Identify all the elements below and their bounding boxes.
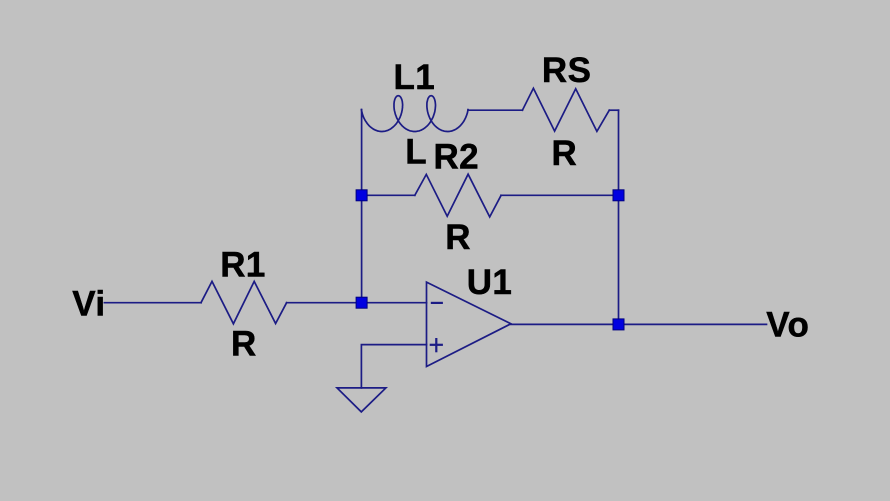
foot bar of digit 1 in L1 [418, 85, 434, 89]
wire node A to R2 [362, 194, 415, 196]
svg-text:R2: R2 [434, 137, 480, 176]
node junction right R2 [613, 190, 624, 201]
svg-text:Vi: Vi [72, 284, 105, 323]
svg-text:R: R [552, 134, 578, 173]
wire op-amp output to Vo [511, 323, 767, 325]
svg-text:RS: RS [542, 51, 591, 90]
op-amp minus sign [432, 302, 442, 304]
resistor R1 [201, 281, 287, 323]
op-amp U1 [427, 282, 511, 366]
wire Vi to R1 [104, 302, 201, 304]
wire R2 to node B [501, 194, 618, 196]
resistor R2 [415, 174, 501, 217]
svg-text:R: R [445, 218, 471, 257]
wire left vertical (node A column) [361, 110, 363, 303]
wire L1 to RS [468, 109, 522, 111]
foot bar of digit 1 in R1 [248, 273, 264, 277]
svg-text:L: L [405, 133, 427, 172]
svg-text:L1: L1 [394, 58, 436, 97]
wire R1 to op-amp inverting input [287, 302, 427, 304]
ground [337, 388, 386, 412]
svg-text:R1: R1 [220, 246, 266, 285]
svg-text:Vo: Vo [766, 305, 809, 344]
svg-text:R: R [231, 325, 257, 364]
node junction left R2 [356, 190, 367, 201]
resistor RS [522, 88, 609, 131]
wire RS to right vertical [609, 109, 618, 111]
op-amp plus sign [431, 344, 442, 346]
wire non-inverting input [361, 345, 426, 388]
node junction inverting input [356, 297, 367, 308]
svg-text:U1: U1 [467, 263, 513, 302]
inductor L1 [361, 96, 468, 132]
wire right vertical [618, 110, 620, 324]
foot bar of digit 1 in U1 [495, 290, 511, 294]
node junction output [613, 319, 624, 330]
